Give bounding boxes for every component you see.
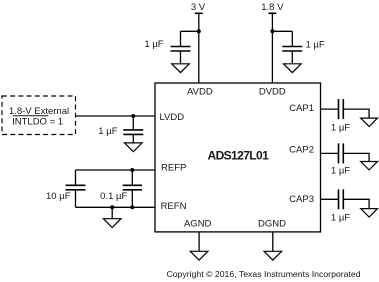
pin label DVDD	[259, 87, 286, 98]
value label C2 1 uF	[306, 40, 325, 51]
wire REFN to ground	[111, 207, 113, 218]
svg-text:DVDD: DVDD	[259, 87, 286, 98]
wire 3V to AVDD pin	[198, 13, 200, 83]
svg-text:3 V: 3 V	[191, 2, 206, 13]
ground (DGND)	[264, 251, 282, 260]
svg-text:Copyright © 2016, Texas Instru: Copyright © 2016, Texas Instruments Inco…	[166, 269, 360, 279]
svg-text:REFN: REFN	[161, 201, 187, 212]
svg-text:REFP: REFP	[161, 163, 186, 174]
power net 3V label	[191, 2, 206, 13]
wire C6 to ground	[343, 109, 369, 118]
svg-text:0.1 µF: 0.1 µF	[100, 191, 127, 202]
wire REFP corner to C4	[75, 170, 77, 185]
pin label AGND	[184, 218, 212, 229]
junction dot REFP / C5	[130, 168, 134, 172]
wire CAP3 pin to C8	[321, 198, 339, 200]
junction dot AVDD net	[197, 29, 201, 33]
wire REFP net	[76, 169, 156, 171]
value label C7 1 uF	[331, 165, 350, 176]
ground (C1)	[172, 64, 190, 73]
value label C3 1 uF	[98, 126, 117, 137]
wire DVDD junction to C2	[272, 30, 292, 32]
note box 1.8-V External / INTLDO = 1	[2, 96, 76, 135]
capacitor C2 1uF (DVDD bypass)	[282, 31, 302, 64]
capacitor C8 1uF (CAP3)	[339, 189, 344, 209]
wire C4 to REFN net	[75, 190, 77, 208]
wire AGND pin to ground	[198, 232, 200, 252]
value label C6 1 uF	[331, 122, 350, 133]
svg-text:1 µF: 1 µF	[144, 39, 163, 50]
wire CAP2 pin to C7	[321, 152, 339, 154]
part label ADS127L01	[208, 149, 270, 163]
svg-text:1 µF: 1 µF	[331, 213, 350, 224]
capacitor C3 1uF (LVDD bypass)	[123, 116, 143, 143]
pin label REFP	[161, 163, 186, 174]
junction dot LVDD net	[131, 114, 135, 118]
value label C4 10 uF	[46, 191, 71, 202]
power supply terminal 1.8V	[268, 12, 276, 14]
power supply terminal 3V	[195, 12, 203, 14]
svg-text:1 µF: 1 µF	[331, 165, 350, 176]
ground (REFN)	[103, 219, 121, 228]
svg-text:CAP3: CAP3	[289, 194, 314, 205]
ground (C7)	[361, 162, 378, 170]
svg-text:1 µF: 1 µF	[306, 40, 325, 51]
wire REFN net	[76, 206, 156, 208]
pin label DGND	[258, 218, 286, 229]
svg-text:CAP1: CAP1	[289, 103, 314, 114]
IC U1 ADS127L01	[155, 83, 321, 232]
svg-text:INTLDO = 1: INTLDO = 1	[12, 117, 63, 128]
junction dot REFN / C5	[130, 205, 134, 209]
value label C5 0.1 uF	[100, 191, 127, 202]
capacitor C1 1uF (AVDD bypass)	[171, 31, 191, 64]
ground (AGND)	[190, 251, 208, 260]
svg-text:LVDD: LVDD	[159, 112, 184, 123]
svg-text:AGND: AGND	[184, 218, 212, 229]
pin label CAP3	[289, 194, 314, 205]
wire AVDD junction to C1	[181, 30, 199, 32]
svg-text:AVDD: AVDD	[187, 87, 213, 98]
svg-text:1 µF: 1 µF	[98, 126, 117, 137]
capacitor C5 0.1uF (reference)	[123, 170, 142, 207]
capacitor C6 1uF (CAP1)	[339, 99, 344, 119]
power net 1.8V label	[261, 2, 284, 13]
svg-text:CAP2: CAP2	[289, 145, 314, 156]
pin label REFN	[161, 201, 187, 212]
wire 1.8V to DVDD pin	[271, 13, 273, 83]
copyright text	[166, 269, 360, 279]
capacitor C4 10uF (reference)	[66, 185, 86, 190]
svg-text:ADS127L01: ADS127L01	[208, 149, 270, 163]
wire DGND pin to ground	[272, 232, 274, 252]
wire C8 to ground	[343, 199, 369, 208]
ground (C8)	[361, 209, 378, 217]
junction dot DVDD net	[270, 29, 274, 33]
svg-text:10 µF: 10 µF	[46, 191, 71, 202]
svg-text:1.8 V: 1.8 V	[261, 2, 284, 13]
wire CAP1 pin to C6	[321, 108, 339, 110]
pin label CAP1	[289, 103, 314, 114]
ground (C3)	[125, 143, 143, 152]
svg-text:1 µF: 1 µF	[331, 122, 350, 133]
pin label CAP2	[289, 145, 314, 156]
ground (C6)	[361, 118, 378, 126]
capacitor C7 1uF (CAP2)	[339, 143, 344, 163]
value label C8 1 uF	[331, 213, 350, 224]
value label C1 1 uF	[144, 39, 163, 50]
pin label AVDD	[187, 87, 213, 98]
wire C7 to ground	[343, 153, 369, 161]
wire LVDD net	[76, 115, 156, 117]
junction dot REFN ground tap	[110, 205, 114, 209]
pin label LVDD	[159, 112, 184, 123]
svg-text:DGND: DGND	[258, 218, 286, 229]
ground (C2)	[284, 64, 302, 73]
